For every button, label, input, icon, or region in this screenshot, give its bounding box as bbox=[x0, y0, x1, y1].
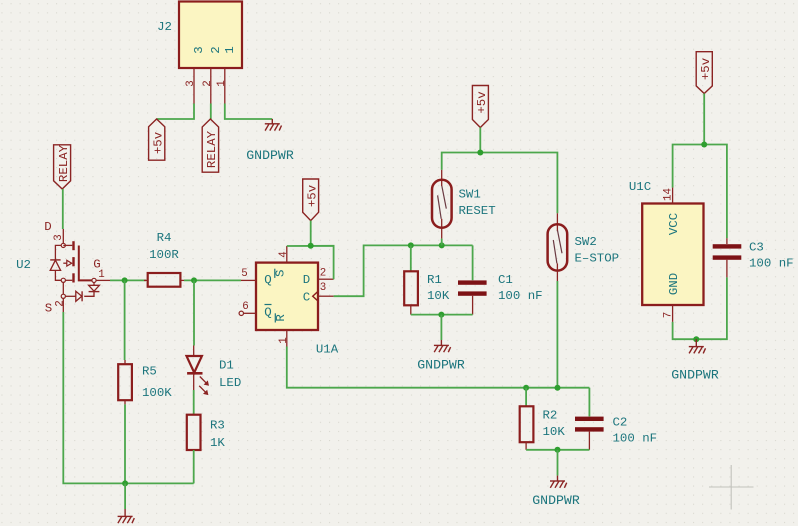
svg-text:S: S bbox=[274, 270, 288, 277]
svg-text:Q: Q bbox=[264, 306, 271, 320]
wire U1A pin4 to pin2 bbox=[287, 246, 334, 279]
svg-text:1K: 1K bbox=[210, 436, 225, 450]
capacitor C2 bbox=[575, 388, 657, 450]
svg-text:2: 2 bbox=[54, 300, 66, 306]
resistor R1 bbox=[404, 245, 450, 314]
svg-text:+5v: +5v bbox=[699, 57, 713, 80]
wire U1A pin3 clock net bbox=[334, 245, 473, 296]
svg-text:2: 2 bbox=[209, 46, 223, 53]
switch SW1 bbox=[432, 170, 496, 239]
wire switch top net bbox=[442, 153, 558, 214]
wire +5v to U1C top net bbox=[703, 94, 705, 145]
svg-text:C: C bbox=[303, 291, 310, 305]
wire RELAY to U2 drain bbox=[62, 189, 64, 229]
ground GNDPWR (U1C) bbox=[671, 339, 719, 382]
junction R1 top bbox=[408, 242, 414, 248]
svg-text:3: 3 bbox=[53, 234, 65, 240]
svg-text:R4: R4 bbox=[157, 231, 172, 245]
svg-text:1: 1 bbox=[278, 337, 290, 343]
svg-text:E–STOP: E–STOP bbox=[575, 252, 620, 266]
junction R5 top bbox=[122, 277, 128, 283]
wire U1A pin1 to reset net bbox=[287, 347, 590, 388]
resistor R4 bbox=[144, 231, 184, 287]
wire R2 bottom to C2 bottom bbox=[526, 449, 589, 451]
svg-text:U1A: U1A bbox=[316, 343, 339, 357]
svg-text:D: D bbox=[303, 273, 310, 287]
svg-text:LED: LED bbox=[219, 376, 241, 390]
svg-text:2: 2 bbox=[202, 80, 214, 86]
svg-text:RELAY: RELAY bbox=[57, 144, 71, 182]
flip-flop U1A bbox=[239, 246, 339, 357]
resistor R2 bbox=[520, 388, 566, 450]
gate protection diodes of U2 bbox=[93, 283, 95, 286]
svg-text:U2: U2 bbox=[16, 258, 31, 272]
svg-text:4: 4 bbox=[278, 251, 290, 257]
ground GNDPWR (bottom left) bbox=[118, 509, 135, 523]
svg-text:VCC: VCC bbox=[667, 213, 681, 235]
svg-text:7: 7 bbox=[663, 312, 675, 318]
wire R4 to U1A pin 5 bbox=[184, 279, 241, 281]
svg-text:100 nF: 100 nF bbox=[749, 257, 794, 271]
capacitor C1 bbox=[458, 245, 543, 314]
junction R2 top bbox=[523, 385, 529, 391]
svg-text:GNDPWR: GNDPWR bbox=[417, 358, 465, 373]
pin 1 (G) of U2 bbox=[92, 278, 96, 282]
global label RELAY (J2) bbox=[202, 119, 219, 172]
svg-text:R: R bbox=[274, 314, 288, 322]
junction SW2 bottom bbox=[555, 385, 561, 391]
pin 2 of U1A bbox=[318, 278, 334, 280]
pin 4 of U1A bbox=[286, 246, 288, 263]
wire U1C bottom net bbox=[673, 277, 727, 339]
svg-text:5: 5 bbox=[241, 268, 247, 280]
gate bar of U2 bbox=[79, 246, 92, 281]
svg-text:1: 1 bbox=[98, 269, 104, 281]
junction U1C top bbox=[701, 142, 707, 148]
svg-text:14: 14 bbox=[663, 188, 675, 201]
svg-text:C3: C3 bbox=[749, 241, 764, 255]
svg-text:10K: 10K bbox=[543, 425, 566, 439]
wire D1 to R3 bbox=[193, 390, 195, 415]
svg-text:S: S bbox=[45, 302, 52, 316]
wire U2 source down to bottom rail bbox=[63, 312, 193, 483]
svg-text:C1: C1 bbox=[498, 273, 513, 287]
sheet crosshair marker bbox=[709, 465, 754, 510]
pin 3 of J2 bbox=[185, 68, 197, 104]
transistor U2 bbox=[16, 220, 110, 315]
junction bottom rail bbox=[122, 480, 128, 486]
svg-text:C2: C2 bbox=[613, 416, 628, 430]
pin 2 (S) of U2 bbox=[61, 294, 65, 298]
pin 6 of U1A bbox=[239, 311, 243, 315]
junction ground R1C1 bbox=[438, 312, 444, 318]
junction U1C ground bbox=[693, 336, 699, 342]
pin 3 of U1A bbox=[318, 295, 334, 297]
svg-text:Q: Q bbox=[264, 273, 271, 287]
svg-text:1: 1 bbox=[216, 80, 228, 86]
junction +5v switches bbox=[477, 150, 483, 156]
svg-text:+5v: +5v bbox=[151, 131, 165, 154]
svg-text:6: 6 bbox=[242, 301, 248, 313]
wire R5 branch bbox=[124, 280, 126, 360]
wire D1 branch bbox=[193, 280, 195, 345]
svg-text:GNDPWR: GNDPWR bbox=[671, 368, 719, 383]
svg-text:GNDPWR: GNDPWR bbox=[532, 493, 580, 508]
svg-text:100R: 100R bbox=[149, 248, 179, 262]
wire J2 pin2 to RELAY label bbox=[210, 104, 212, 120]
junction +5v U1A bbox=[308, 243, 314, 249]
wire U2 gate to R4 bbox=[110, 279, 146, 281]
wire stub to ground (R2C2) bbox=[557, 450, 559, 476]
wire +5v to switch top net bbox=[479, 128, 481, 153]
ground GNDPWR (R1C1) bbox=[417, 340, 465, 373]
power flag +5v (SW net) bbox=[472, 86, 489, 128]
switch SW2 bbox=[548, 213, 620, 281]
wire J2 pin3 to +5v flag bbox=[157, 104, 194, 120]
wire SW1 bottom to clock net bbox=[441, 239, 443, 246]
svg-text:+5v: +5v bbox=[475, 91, 489, 114]
wire J2 pin1 to ground bbox=[225, 104, 272, 120]
svg-text:D1: D1 bbox=[219, 359, 234, 373]
wire R3 to bottom rail bbox=[193, 450, 195, 483]
wire stub to ground (R1C1) bbox=[440, 315, 442, 340]
wire stub to ground (bottom left) bbox=[124, 483, 126, 509]
svg-text:R1: R1 bbox=[427, 273, 442, 287]
svg-text:100 nF: 100 nF bbox=[498, 289, 543, 303]
svg-text:2: 2 bbox=[320, 268, 326, 280]
power unit U1C bbox=[629, 180, 704, 322]
svg-text:10K: 10K bbox=[427, 289, 450, 303]
capacitor C3 bbox=[713, 238, 794, 277]
junction SW1 bottom bbox=[439, 242, 445, 248]
resistor R3 bbox=[187, 415, 226, 450]
svg-text:J2: J2 bbox=[157, 20, 172, 34]
svg-text:RESET: RESET bbox=[459, 204, 496, 218]
power flag +5v (U1A) bbox=[303, 179, 320, 221]
pin 14 of U1C bbox=[672, 188, 674, 204]
wire R5 to bottom rail bbox=[124, 404, 126, 483]
svg-text:R2: R2 bbox=[543, 409, 558, 423]
svg-text:D: D bbox=[44, 220, 51, 234]
LED D1 bbox=[187, 346, 242, 396]
pin 2 of J2 bbox=[202, 68, 214, 104]
wire R1 bottom to C1 bottom bbox=[411, 314, 473, 316]
svg-text:RELAY: RELAY bbox=[205, 130, 219, 168]
svg-text:GNDPWR: GNDPWR bbox=[246, 148, 294, 163]
pin 1 of J2 bbox=[216, 68, 228, 104]
power flag +5v (U1C) bbox=[696, 52, 713, 94]
junction D1 top bbox=[191, 277, 197, 283]
mosfet channel of U2 bbox=[63, 244, 72, 246]
power flag +5v (J2) bbox=[149, 119, 166, 160]
svg-text:3: 3 bbox=[320, 282, 326, 294]
svg-text:1: 1 bbox=[223, 46, 237, 53]
junction ground R2C2 bbox=[555, 447, 561, 453]
ground GNDPWR (R2C2) bbox=[532, 476, 580, 508]
wire SW2 bottom to reset net bbox=[556, 281, 558, 388]
svg-text:R5: R5 bbox=[142, 365, 157, 379]
svg-text:100 nF: 100 nF bbox=[613, 432, 658, 446]
svg-text:+5v: +5v bbox=[305, 184, 319, 207]
body diode of U2 bbox=[55, 245, 61, 260]
pin 3 (D) of U2 bbox=[62, 229, 64, 243]
ground GNDPWR (J2) bbox=[246, 119, 294, 163]
pin 7 of U1C bbox=[672, 305, 674, 322]
connector J2 bbox=[157, 2, 242, 69]
svg-text:3: 3 bbox=[185, 80, 197, 86]
svg-text:3: 3 bbox=[192, 46, 206, 53]
global label RELAY (U2) bbox=[54, 144, 71, 189]
svg-text:100K: 100K bbox=[142, 386, 172, 400]
svg-text:GND: GND bbox=[667, 273, 681, 295]
svg-text:SW1: SW1 bbox=[459, 188, 481, 202]
resistor R5 bbox=[118, 360, 172, 404]
clock chevron pin 3 bbox=[313, 292, 318, 301]
pin 1 of U1A bbox=[286, 330, 288, 347]
svg-text:R3: R3 bbox=[210, 419, 225, 433]
svg-text:SW2: SW2 bbox=[575, 235, 597, 249]
wire U1C top net bbox=[673, 145, 727, 239]
pin 5 of U1A bbox=[241, 279, 256, 281]
svg-text:U1C: U1C bbox=[629, 180, 651, 194]
wire +5v to U1A set/data net bbox=[310, 221, 312, 246]
